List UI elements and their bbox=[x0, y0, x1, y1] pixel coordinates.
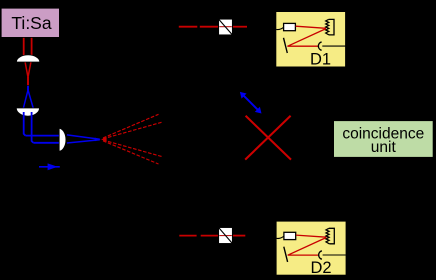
red signal beam dashed upper-A bbox=[103, 114, 159, 138]
red converging beam after lens L1 bbox=[25, 62, 31, 77]
lens L2 bbox=[16, 108, 39, 116]
detector D2 internals bbox=[277, 228, 346, 262]
blue double arrow polarization bbox=[240, 92, 262, 114]
red crossed beams X line 2 bbox=[245, 116, 290, 160]
svg-text:D1: D1 bbox=[310, 51, 331, 69]
red beam to polarizer P2 segment b bbox=[201, 235, 219, 237]
polarizer cube P1 bbox=[219, 19, 233, 35]
blue propagation arrowhead at focus bbox=[95, 138, 101, 142]
red signal beam dashed upper-B bbox=[103, 122, 162, 139]
red beam after polarizer P2 bbox=[233, 235, 245, 237]
blue direction arrow under beam bbox=[39, 163, 60, 170]
red beam to polarizer P1 segment b bbox=[200, 26, 218, 28]
red pump beam line left bbox=[23, 38, 25, 58]
blue beam vertical right segment bbox=[32, 112, 34, 143]
lens L3 bbox=[59, 128, 66, 151]
red beam after polarizer P1 bbox=[233, 26, 247, 28]
blue beam vertical left segment bbox=[24, 112, 26, 136]
blue beam horizontal lower segment bbox=[33, 142, 59, 144]
laser Ti:Sa box bbox=[1, 8, 60, 38]
red focus dash bbox=[27, 77, 29, 85]
blue focus dash bbox=[27, 86, 29, 91]
lens L1 bbox=[16, 55, 39, 62]
detector D2 box bbox=[276, 221, 346, 277]
red beam to polarizer P1 segment a bbox=[179, 26, 198, 28]
detector D1 box bbox=[276, 11, 346, 68]
svg-text:Ti:Sa: Ti:Sa bbox=[11, 13, 51, 33]
red arrowhead at crystal focus bbox=[101, 137, 107, 141]
coincidence unit box bbox=[333, 121, 433, 158]
blue beam horizontal upper segment bbox=[25, 135, 59, 137]
red crossed beams X line 1 bbox=[246, 116, 291, 160]
red idler beam dashed lower-B bbox=[103, 141, 159, 164]
blue diverging beam before lens L2 bbox=[23, 90, 33, 108]
red idler beam dashed lower-A bbox=[103, 140, 162, 157]
red pump beam line right bbox=[31, 38, 33, 58]
detector D1 internals bbox=[276, 19, 345, 53]
red beam to polarizer P2 segment a bbox=[179, 235, 196, 237]
blue converging beam after lens L3 bbox=[67, 135, 100, 143]
polarizer cube P2 bbox=[219, 227, 233, 243]
svg-text:unit: unit bbox=[371, 139, 397, 156]
svg-text:D2: D2 bbox=[310, 259, 331, 277]
